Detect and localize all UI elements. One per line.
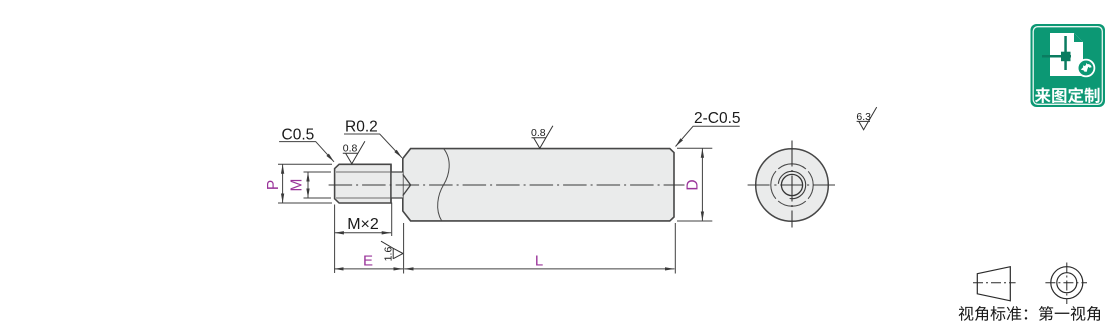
svg-text:E: E — [363, 253, 373, 270]
badge text — [1035, 87, 1100, 103]
thread minor diameter lines — [336, 172, 391, 198]
shaft body large cylinder — [403, 149, 674, 221]
view standard text — [959, 306, 1100, 321]
dimension P — [265, 164, 332, 203]
svg-text:6.3: 6.3 — [856, 111, 871, 123]
svg-text:D: D — [685, 179, 702, 190]
label 2-C0.5 with leader — [676, 110, 741, 147]
S-curve break line in cylinder — [438, 149, 450, 221]
svg-text:0.8: 0.8 — [343, 143, 358, 155]
roughness symbol 1.6 rotated on shoulder face — [381, 241, 403, 261]
roughness symbol 0.8 on thread — [343, 141, 365, 164]
dimension M x2 — [334, 203, 391, 237]
first angle projection circles symbol — [1045, 263, 1087, 305]
svg-text:2-C0.5: 2-C0.5 — [694, 110, 741, 127]
end view outer circle — [756, 149, 829, 222]
label R0.2 with leader — [344, 119, 402, 158]
centerline of shaft — [329, 184, 685, 186]
badge logo circle with horse head — [1078, 60, 1095, 77]
end view crosshair — [748, 141, 836, 228]
svg-text:L: L — [535, 253, 543, 270]
dimension D — [677, 148, 712, 221]
svg-text:M: M — [289, 179, 306, 192]
roughness symbol 0.8 on cylinder — [531, 126, 553, 149]
badge document icon — [1042, 33, 1083, 76]
dimension M — [289, 172, 332, 198]
end view thread 3/4 arc — [778, 171, 805, 198]
first angle projection cone symbol — [973, 267, 1016, 301]
roughness symbol 6.3 free — [856, 107, 876, 130]
svg-text:C0.5: C0.5 — [282, 127, 315, 144]
dimension L — [404, 223, 676, 274]
svg-text:M×2: M×2 — [347, 216, 379, 233]
end view step circle — [771, 164, 813, 206]
thread section outline — [335, 164, 391, 203]
thread end line — [390, 164, 392, 203]
svg-text:0.8: 0.8 — [531, 127, 546, 139]
cone point inside cylinder — [403, 174, 411, 195]
svg-text:1.6: 1.6 — [383, 247, 395, 262]
svg-text:P: P — [265, 180, 282, 190]
badge green rounded square — [1031, 24, 1106, 107]
label C0.5 with leader — [279, 127, 334, 162]
thread neck — [391, 172, 403, 198]
svg-text:R0.2: R0.2 — [345, 119, 378, 136]
end view cone circle — [781, 174, 802, 195]
dimension E — [334, 205, 403, 274]
